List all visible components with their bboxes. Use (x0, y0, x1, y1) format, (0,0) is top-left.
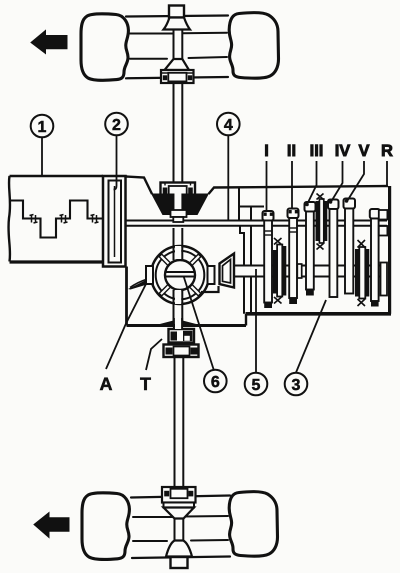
shaft crossing top of ring (175, 246, 181, 259)
gearbox inner wall (250, 207, 252, 314)
gear housing step wall (245, 314, 247, 326)
gear III (305, 202, 316, 296)
bottom bell (166, 541, 192, 557)
reverse idler middle (379, 226, 388, 236)
shaft into differential (174, 228, 183, 260)
wire: bottom axle outer bottom line (132, 557, 230, 559)
diff spokes (160, 255, 200, 295)
svg-text:4: 4 (224, 117, 233, 134)
shaft collar lower (173, 217, 183, 222)
svg-text:II: II (287, 142, 296, 160)
svg-text:T: T (140, 374, 151, 394)
propeller shaft to rear (175, 357, 184, 488)
shaft between trumpets (top) (174, 30, 183, 60)
wheel rear-right (229, 492, 277, 557)
engine torn left edge (8, 176, 10, 262)
bottom flange foot (171, 557, 188, 568)
leader 1 (41, 137, 43, 176)
propeller shaft to case (top) (174, 83, 183, 183)
gear IV (328, 200, 339, 298)
input shaft double line (125, 221, 387, 226)
gear position labels (264, 142, 393, 160)
synchro pair P1 (273, 238, 287, 304)
shaft crossing bottom of ring (175, 290, 181, 304)
speedometer funnel (220, 254, 235, 288)
lower trumpet above bearing (top axle) (165, 59, 190, 70)
selector fork wedge (A) (128, 281, 147, 290)
wire: bottom hub lower line left (133, 540, 167, 542)
wheel rear-left (82, 493, 129, 560)
svg-text:6: 6 (211, 374, 220, 391)
gearbox divider wall (239, 188, 244, 314)
direction arrow (top) (31, 31, 67, 54)
dark bell skirt (151, 194, 209, 216)
reverse idler lower (381, 263, 388, 296)
svg-text:IV: IV (335, 142, 351, 160)
wheel front-right (229, 13, 278, 79)
shaft collar upper (171, 210, 187, 217)
reverse idler upper (379, 210, 388, 220)
leader IV (332, 161, 343, 201)
diff ring inner rim (156, 251, 205, 300)
leader R (386, 161, 388, 187)
diff inner circle (165, 260, 195, 290)
synchro pair P3 (355, 240, 369, 306)
bearing block (top axle) (161, 70, 194, 83)
fork upper line (130, 280, 146, 288)
bearing block (bottom axle) (162, 487, 196, 508)
case left edge (125, 267, 128, 326)
svg-text:III: III (310, 142, 324, 160)
svg-text:V: V (358, 142, 369, 160)
upper trumpet (top axle) (164, 18, 191, 30)
wire: top axle hub upper line left (130, 33, 174, 35)
leader III (308, 161, 317, 204)
svg-text:A: A (100, 374, 113, 394)
pinion flange (top) (169, 6, 184, 18)
gear II (288, 209, 302, 305)
crank break marks (30, 215, 99, 224)
svg-text:5: 5 (252, 377, 261, 394)
bell bearing block on case (161, 183, 196, 198)
leader 3 (296, 300, 326, 373)
callout circle 1 (31, 115, 54, 138)
bracket below funnel (201, 286, 219, 292)
diff pinion bar (166, 272, 195, 277)
callout circle 5 (245, 373, 268, 396)
wire: top axle outer top line (126, 16, 228, 17)
leader 6 (184, 276, 214, 370)
case top edge right of bell (209, 186, 389, 194)
wheel front-left (81, 14, 128, 80)
callout circle 3 (285, 373, 308, 396)
synchro pair P2 (316, 194, 328, 250)
engine top edge (10, 175, 104, 177)
callout circle 6 (204, 370, 227, 393)
direction arrow (bottom) (34, 513, 69, 538)
trapezoid below bottom bearing (164, 508, 195, 519)
svg-text:3: 3 (292, 377, 301, 394)
wire: bottom axle outer top line (131, 496, 230, 498)
callout circle 4 (217, 113, 240, 136)
dark wedges at case bottom (156, 321, 173, 328)
svg-text:1: 1 (38, 119, 47, 136)
coupling block 1 (T) (169, 329, 195, 343)
engine bottom edge (10, 260, 104, 263)
gearbox bottom edge (246, 312, 392, 316)
wire: top axle hub lower line right (189, 57, 228, 58)
leader I (266, 161, 268, 211)
leader 5 (255, 269, 257, 373)
callout circle 2 (105, 113, 128, 136)
leader 4 (227, 136, 229, 221)
gear I (263, 211, 274, 308)
leader T (146, 339, 162, 370)
case top edge left of bell (126, 177, 153, 195)
wire: bottom hub upper line right (184, 515, 229, 518)
gearbox ledge (239, 206, 264, 208)
leader A (106, 284, 146, 369)
diff outer circle (151, 246, 209, 304)
engine castellated internal line (10, 201, 109, 238)
wire: top axle outer bottom line (126, 77, 228, 78)
shaft segment (bottom) (175, 519, 184, 541)
gear R driven (370, 209, 380, 307)
coupling block 2 (T) (164, 345, 199, 358)
gear V (344, 199, 356, 294)
wire: top axle hub upper line right (183, 32, 228, 34)
wire: bottom hub lower line right (191, 539, 228, 542)
leader V (348, 161, 365, 201)
svg-text:2: 2 (112, 117, 121, 134)
leader 2 (114, 136, 117, 190)
wire: bottom hub upper line left (133, 516, 175, 518)
propeller shaft white channel through case bottom (175, 321, 182, 330)
case bottom edge centre (127, 324, 247, 327)
svg-text:I: I (264, 142, 269, 160)
leader II (291, 161, 293, 209)
diff left bearing tab (146, 266, 153, 284)
wire: top axle hub lower line left (130, 58, 167, 60)
output shaft double line (234, 266, 387, 277)
gearbox right edge (388, 186, 391, 314)
diff right bearing tab (208, 266, 215, 284)
svg-text:R: R (381, 142, 393, 160)
